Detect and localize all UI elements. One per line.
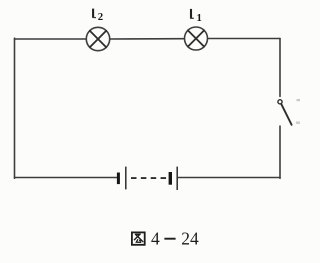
- svg-text:2: 2: [98, 11, 103, 23]
- svg-text:4: 4: [151, 228, 160, 248]
- svg-text:24: 24: [181, 228, 199, 248]
- svg-text:1: 1: [197, 12, 202, 24]
